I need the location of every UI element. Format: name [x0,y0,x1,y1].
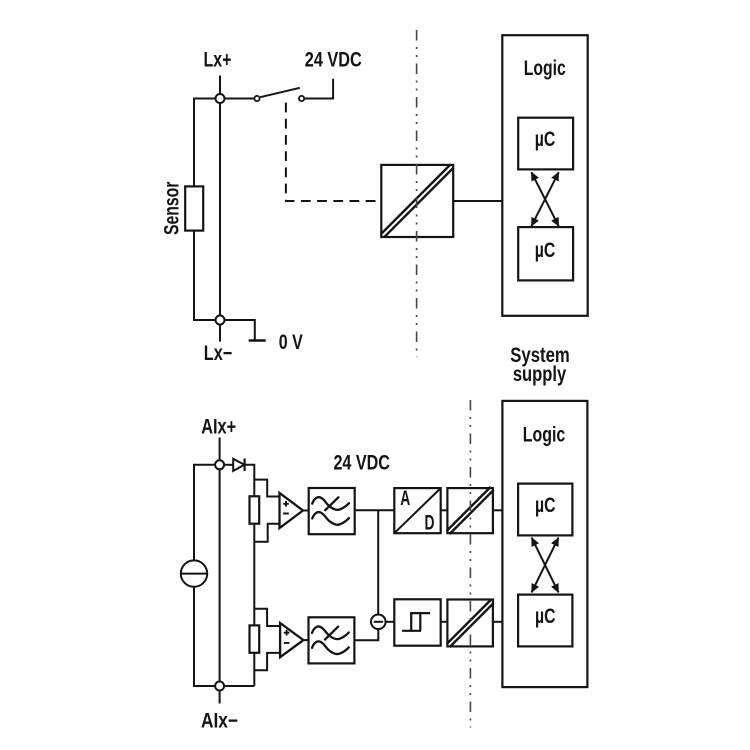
wire op-amp1 to filter1 [303,510,309,512]
op-amp A2 [280,623,303,657]
wire step to op-amp2 - input [254,653,280,670]
svg-text:Logic: Logic [524,57,566,80]
wire dashed control line to isolator [286,103,381,201]
crossed arrows between uC boxes (bottom) [532,538,559,593]
wire left branch to current source [194,465,254,686]
wire left branch (node1 to sensor to node2) [194,99,220,321]
svg-text:Sensor: Sensor [160,182,183,236]
Logic box (bottom) [502,401,587,687]
filter F1 [309,488,355,534]
resistor R2 (shunt) [250,625,260,652]
svg-text:Lx+: Lx+ [204,49,232,72]
wire AIx+ lead [219,438,221,465]
wire switch to 24VDC lead [304,79,333,99]
Logic box (top) [502,35,587,316]
wire main bus AIx [219,465,221,686]
svg-text:D: D [425,511,435,534]
svg-text:µC: µC [535,494,556,517]
isolator U1 (optocoupler) [381,165,453,237]
resistor Sensor [185,186,203,230]
svg-text:µC: µC [535,239,556,262]
svg-text:AIx−: AIx− [201,709,238,732]
filter F2 [309,617,355,663]
node Lx- junction [216,316,225,325]
wire Lx+ lead [219,76,221,99]
svg-text:µC: µC [535,605,556,628]
svg-text:Logic: Logic [523,424,566,447]
crossed arrows between uC boxes (top) [531,172,558,226]
switch S1 [260,88,300,97]
resistor R1 (shunt) [250,496,260,523]
svg-text:µC: µC [535,128,556,151]
wire isolator to logic [453,200,502,202]
uC box U6 [518,484,572,536]
current source I1 [181,560,207,586]
wire step to op-amp1 + input [254,480,279,497]
isolation boundary (dash-dot line, bottom) [469,400,471,728]
diode D1 [233,459,244,471]
A/D converter [394,488,440,533]
wire AIx- lead [219,686,221,704]
wire comparator to isolator3 [441,621,448,623]
wire step to op-amp1 - input [254,524,279,542]
isolation boundary (dash-dot line, top) [416,30,418,357]
uC box U2 [518,118,573,170]
uC box U3 [518,227,573,280]
svg-text:A: A [400,487,410,510]
wire junction down to subtractor [377,510,379,614]
svg-text:24 VDC: 24 VDC [333,451,390,474]
svg-text:Lx−: Lx− [204,342,233,365]
subtractor (minus circle) [371,615,386,630]
svg-text:0 V: 0 V [279,331,303,354]
uC box U7 [518,595,572,647]
node AIx- junction [215,682,224,691]
op-amp A1 [280,493,304,528]
node AIx+ junction [215,460,224,469]
comparator (hysteresis) [394,599,440,645]
svg-text:AIx+: AIx+ [201,415,236,438]
node Lx+ junction [216,94,225,103]
wire main bus node1-node2 [219,99,221,321]
wire node2 to ground [220,320,255,341]
wire node1 to switch [220,98,254,100]
wire subtractor to comparator [386,621,395,623]
wire isolator2 to logic [493,509,503,511]
wire Lx- lead [219,320,221,342]
wire filter2 to subtractor [354,629,378,640]
ground 0V bar [249,339,266,341]
wire op-amp2 to filter2 [303,639,308,641]
svg-text:24 VDC: 24 VDC [305,49,362,72]
svg-text:supply: supply [513,363,567,386]
wire step to op-amp2 + input [254,609,280,626]
wire node to diode [220,464,234,466]
wire isolator3 to logic [493,621,503,623]
wire A/D to isolator2 [441,509,448,511]
isolator U4 [447,488,493,533]
isolator U5 [447,600,493,647]
wire diode to measuring chain [244,465,254,686]
wire filter1 to A/D [355,509,395,511]
